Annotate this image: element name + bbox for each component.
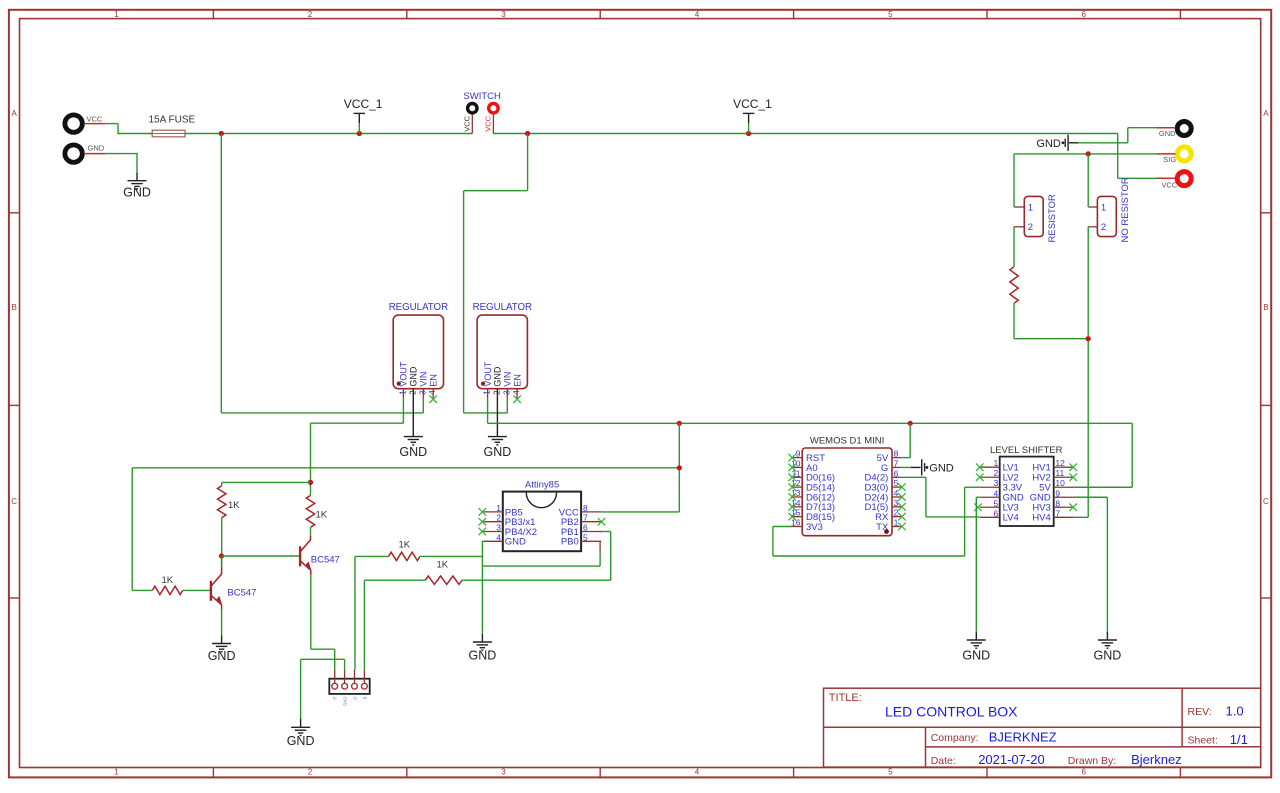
svg-text:1/1: 1/1 xyxy=(1230,732,1248,747)
svg-text:8: 8 xyxy=(894,449,899,459)
svg-text:6: 6 xyxy=(894,468,899,478)
svg-text:16: 16 xyxy=(791,518,801,528)
svg-text:Bjerknez: Bjerknez xyxy=(1131,752,1182,767)
svg-text:1: 1 xyxy=(1101,202,1106,213)
svg-text:Sheet:: Sheet: xyxy=(1188,735,1218,747)
svg-text:4: 4 xyxy=(894,488,899,498)
svg-text:9: 9 xyxy=(1055,488,1060,498)
svg-text:EN: EN xyxy=(512,374,522,387)
svg-text:1K: 1K xyxy=(399,540,411,551)
svg-text:GND: GND xyxy=(287,734,315,748)
svg-text:GND: GND xyxy=(469,649,497,663)
svg-text:2: 2 xyxy=(308,767,313,776)
svg-text:LEVEL SHIFTER: LEVEL SHIFTER xyxy=(990,445,1063,456)
svg-text:10: 10 xyxy=(1055,478,1065,488)
svg-text:8: 8 xyxy=(583,503,588,513)
svg-text:GND: GND xyxy=(343,697,348,707)
svg-text:Attiny85: Attiny85 xyxy=(525,479,559,490)
svg-text:PB0: PB0 xyxy=(561,537,579,548)
svg-text:Date:: Date: xyxy=(931,755,956,767)
svg-text:GND: GND xyxy=(505,537,526,548)
svg-text:3: 3 xyxy=(501,10,506,19)
svg-text:6: 6 xyxy=(1081,767,1086,776)
svg-text:2: 2 xyxy=(894,508,899,518)
svg-text:GND: GND xyxy=(493,366,503,387)
svg-text:RESISTOR: RESISTOR xyxy=(1047,194,1058,243)
svg-text:9: 9 xyxy=(796,449,801,459)
svg-text:2: 2 xyxy=(993,468,998,478)
svg-text:7: 7 xyxy=(583,513,588,523)
svg-text:1: 1 xyxy=(894,518,899,528)
svg-text:1: 1 xyxy=(993,458,998,468)
svg-text:VCC: VCC xyxy=(87,115,103,124)
svg-text:BC547: BC547 xyxy=(227,588,256,599)
svg-text:EN: EN xyxy=(429,374,439,387)
svg-text:HV4: HV4 xyxy=(1032,513,1050,524)
svg-text:GND: GND xyxy=(929,463,954,475)
svg-text:VCC: VCC xyxy=(1161,180,1177,189)
svg-text:1: 1 xyxy=(114,767,119,776)
svg-text:GND: GND xyxy=(1094,649,1122,663)
svg-text:GND: GND xyxy=(1159,129,1176,138)
svg-text:1: 1 xyxy=(496,503,501,513)
svg-text:B: B xyxy=(1263,303,1268,312)
svg-text:3: 3 xyxy=(894,498,899,508)
svg-text:LED CONTROL BOX: LED CONTROL BOX xyxy=(885,704,1018,720)
svg-text:REGULATOR: REGULATOR xyxy=(389,302,448,313)
svg-text:1K: 1K xyxy=(316,510,328,521)
svg-text:1K: 1K xyxy=(437,560,449,571)
svg-text:8: 8 xyxy=(1055,498,1060,508)
svg-text:C: C xyxy=(11,497,17,506)
svg-text:2: 2 xyxy=(1028,222,1033,233)
svg-text:REGULATOR: REGULATOR xyxy=(473,302,532,313)
svg-text:LV4: LV4 xyxy=(1003,513,1019,524)
svg-text:5: 5 xyxy=(583,532,588,542)
svg-text:Drawn By:: Drawn By: xyxy=(1068,755,1116,767)
svg-text:BC547: BC547 xyxy=(311,555,340,566)
svg-text:GND: GND xyxy=(1036,138,1061,150)
svg-text:4: 4 xyxy=(695,10,700,19)
svg-text:GND: GND xyxy=(123,185,151,199)
svg-text:1: 1 xyxy=(114,10,119,19)
svg-text:15A FUSE: 15A FUSE xyxy=(149,115,196,126)
svg-text:VCC_1: VCC_1 xyxy=(344,97,383,111)
svg-text:VIN: VIN xyxy=(419,372,429,387)
svg-text:C: C xyxy=(1263,497,1269,506)
svg-text:3: 3 xyxy=(501,767,506,776)
svg-text:B: B xyxy=(12,303,17,312)
svg-text:NO RESISTOR: NO RESISTOR xyxy=(1120,177,1131,242)
svg-text:6: 6 xyxy=(583,523,588,533)
svg-text:VCC: VCC xyxy=(484,115,493,131)
svg-text:7: 7 xyxy=(894,458,899,468)
svg-text:WEMOS D1 MINI: WEMOS D1 MINI xyxy=(810,436,884,447)
svg-text:5: 5 xyxy=(888,767,893,776)
svg-text:GND: GND xyxy=(208,649,236,663)
svg-text:4: 4 xyxy=(993,488,998,498)
svg-text:5: 5 xyxy=(888,10,893,19)
svg-text:SIG: SIG xyxy=(1163,155,1176,164)
svg-text:A: A xyxy=(1263,109,1269,118)
svg-text:TITLE:: TITLE: xyxy=(829,692,862,704)
svg-text:5: 5 xyxy=(894,478,899,488)
svg-text:R: R xyxy=(333,697,338,700)
svg-text:12: 12 xyxy=(1055,458,1065,468)
svg-text:3: 3 xyxy=(993,478,998,488)
svg-text:A: A xyxy=(12,109,18,118)
svg-text:2: 2 xyxy=(1101,222,1106,233)
svg-text:2: 2 xyxy=(496,513,501,523)
svg-text:GND: GND xyxy=(409,366,419,387)
svg-text:7: 7 xyxy=(1055,508,1060,518)
svg-text:3: 3 xyxy=(496,523,501,533)
svg-text:VCC_1: VCC_1 xyxy=(733,97,772,111)
svg-text:6: 6 xyxy=(1081,10,1086,19)
svg-text:SWITCH: SWITCH xyxy=(463,91,501,102)
svg-text:3V3: 3V3 xyxy=(806,522,823,533)
svg-text:1K: 1K xyxy=(162,575,174,586)
svg-text:Company:: Company: xyxy=(931,732,979,744)
svg-text:5: 5 xyxy=(993,498,998,508)
svg-text:GND: GND xyxy=(399,445,427,459)
svg-text:1.0: 1.0 xyxy=(1226,704,1244,719)
svg-text:1: 1 xyxy=(1028,202,1033,213)
svg-text:GND: GND xyxy=(484,445,512,459)
svg-text:2: 2 xyxy=(308,10,313,19)
svg-text:VIN: VIN xyxy=(503,372,513,387)
svg-text:BJERKNEZ: BJERKNEZ xyxy=(989,729,1057,744)
svg-text:11: 11 xyxy=(1055,468,1064,478)
svg-text:B: B xyxy=(362,696,367,699)
svg-text:VCC: VCC xyxy=(463,115,472,131)
svg-text:2021-07-20: 2021-07-20 xyxy=(978,752,1044,767)
svg-text:4: 4 xyxy=(496,532,501,542)
svg-text:4: 4 xyxy=(695,767,700,776)
svg-text:1K: 1K xyxy=(228,500,240,511)
svg-text:6: 6 xyxy=(993,508,998,518)
svg-text:GND: GND xyxy=(962,649,990,663)
svg-text:GND: GND xyxy=(88,144,105,153)
svg-text:REV:: REV: xyxy=(1188,706,1212,718)
